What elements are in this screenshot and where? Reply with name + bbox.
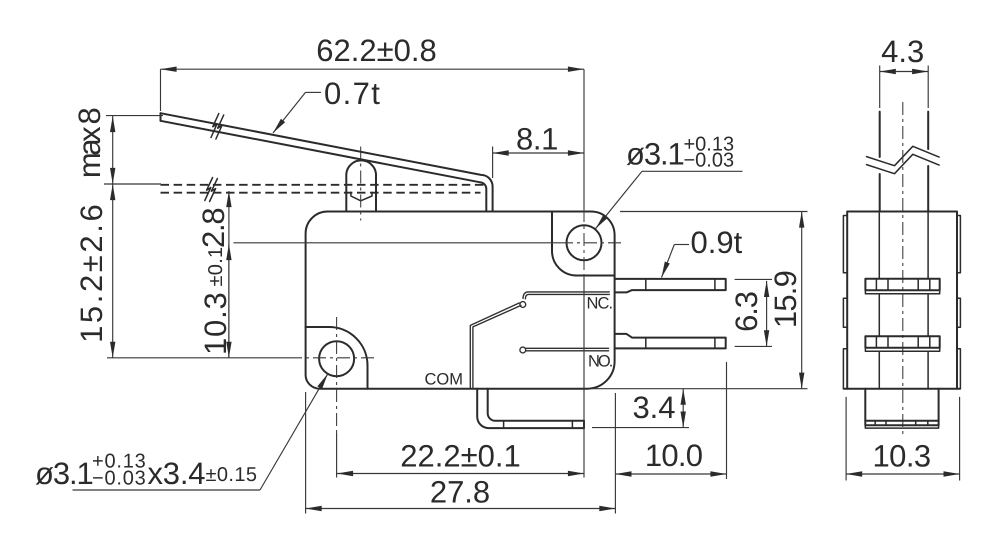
dim 4.3 [880, 66, 929, 109]
crosshair bottom-left hole horizontal / 15.2 extension [107, 357, 289, 359]
dim 8.1 [492, 147, 494, 179]
left flange [843, 216, 847, 389]
svg-text:4.3: 4.3 [881, 34, 924, 69]
dim 10.0 [726, 362, 728, 479]
right flange [957, 216, 960, 389]
svg-text:10.3: 10.3 [873, 439, 931, 474]
lever free position dashed bottom [161, 192, 481, 194]
lever lower surface [161, 121, 487, 212]
leader 0.7t [306, 91, 322, 93]
side body bottom edge [844, 388, 960, 390]
lever strip left edge [879, 112, 881, 212]
lever break symbol [211, 114, 219, 138]
svg-text:2.8: 2.8 [196, 209, 231, 249]
bottom block [865, 389, 938, 421]
svg-text:COM: COM [425, 371, 464, 389]
plunger [346, 160, 376, 211]
svg-text:−0.03: −0.03 [92, 468, 147, 490]
NC terminal tab [615, 279, 726, 293]
lever strip right edge [927, 112, 929, 212]
side centerline [902, 102, 904, 434]
plunger V mark [351, 192, 372, 201]
svg-text:±0.15: ±0.15 [206, 464, 258, 486]
crosshair top-right hole vertical [583, 69, 585, 209]
break symbol [867, 146, 940, 165]
internal shaft lines [878, 212, 880, 389]
crosshair top-right hole horizontal / 10.3 extension [234, 242, 561, 244]
svg-text:ø3.1: ø3.1 [35, 456, 93, 491]
svg-text:62.2±0.8: 62.2±0.8 [316, 33, 436, 68]
boss step around bottom-left mounting hole [306, 327, 368, 389]
dim 10.3 side [846, 397, 960, 481]
mounting hole bottom-left [319, 341, 354, 376]
svg-text:10.0: 10.0 [645, 438, 703, 473]
dim 15.9 [620, 211, 808, 213]
svg-text:10.3: 10.3 [198, 291, 233, 355]
mounting hole top-right [567, 225, 602, 260]
crosshair bottom-left hole vertical [336, 317, 338, 433]
dim 3.4 [592, 427, 689, 429]
svg-text:NO.: NO. [588, 353, 613, 371]
svg-text:±0.1: ±0.1 [205, 247, 227, 287]
svg-text:ø3.1: ø3.1 [626, 137, 684, 172]
dim 15.2±2.6 [112, 184, 114, 358]
contact rivet NC [520, 302, 526, 308]
svg-text:max 8: max 8 [72, 109, 107, 179]
lever tip edge [160, 113, 162, 121]
contact rivet NO [520, 347, 526, 353]
NC stationary contact line [523, 292, 609, 299]
svg-text:6.3: 6.3 [729, 292, 764, 332]
svg-text:22.2±0.1: 22.2±0.1 [400, 439, 520, 474]
dim 2.8 and 10.3±0.1 [228, 191, 230, 358]
NO tab side [865, 336, 939, 348]
dim 22.2±0.1 [337, 473, 584, 475]
dim max 8 [106, 115, 163, 117]
NC tab side [865, 279, 939, 291]
switch body outline [306, 212, 615, 389]
dashed lever break symbol [205, 178, 213, 201]
NO terminal tab [615, 334, 726, 349]
NO stationary contact line [526, 347, 609, 349]
plunger centerline [360, 147, 362, 221]
COM bent terminal below body [477, 389, 584, 428]
svg-text:3.4: 3.4 [632, 390, 675, 425]
COM terminal riser inside body [470, 303, 519, 389]
svg-text:8.1: 8.1 [516, 122, 558, 157]
svg-text:15.2±2.6: 15.2±2.6 [74, 202, 109, 343]
svg-text:27.8: 27.8 [430, 475, 490, 510]
svg-text:0.7t: 0.7t [324, 76, 381, 111]
svg-text:0.9t: 0.9t [691, 225, 743, 260]
svg-text:−0.03: −0.03 [684, 150, 735, 172]
lever free position dashed top [161, 184, 485, 186]
svg-text:15.9: 15.9 [768, 271, 803, 328]
svg-text:NC.: NC. [587, 295, 613, 313]
dim 62.2±0.8 [160, 69, 162, 111]
side body outline [847, 212, 957, 389]
COM tab side [865, 421, 938, 426]
svg-text:x3.4: x3.4 [148, 456, 206, 491]
boss step around top-right mounting hole [552, 212, 615, 276]
lever upper surface [161, 113, 493, 211]
dim 27.8 [305, 392, 307, 514]
dim 6.3 [735, 278, 772, 280]
